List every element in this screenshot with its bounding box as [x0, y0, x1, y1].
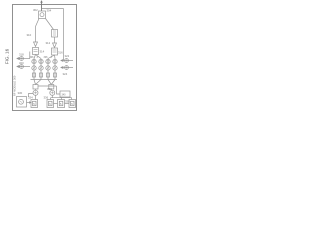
right LO circle row1: [65, 59, 69, 63]
svg-text:322: 322: [65, 54, 70, 58]
svg-text:320: 320: [19, 61, 24, 65]
right LO line row2: [61, 67, 73, 69]
svg-text:314: 314: [40, 50, 45, 54]
DAC box B: [47, 100, 54, 108]
wire diagonal left branch: [36, 19, 40, 27]
left LO circle row2: [20, 65, 24, 69]
switch box 1: [33, 85, 38, 90]
svg-text:332: 332: [47, 87, 52, 91]
amplifier triangle left: [34, 42, 38, 47]
wire split left pair: [34, 55, 41, 59]
svg-text:316: 316: [58, 51, 63, 55]
wire circle1 to box A: [35, 89, 37, 100]
wire V merge 1: [34, 80, 41, 85]
wire top horizontal to LO drop: [42, 8, 64, 10]
box 304 right branch: [52, 30, 58, 38]
wire antenna feed vertical: [41, 1, 43, 11]
circle inside antenna box: [40, 13, 44, 17]
ADC box D: [69, 100, 76, 108]
amp box bottom chain2: [40, 73, 43, 77]
oscillator box: [17, 97, 27, 108]
left LO arrow row2: [17, 66, 19, 68]
svg-text:FIG. 16: FIG. 16: [4, 48, 9, 64]
phase shifter circle row2 chain1: [32, 66, 36, 70]
phase shifter circle row2 chain3: [46, 66, 50, 70]
svg-text:318: 318: [19, 53, 24, 57]
mixer circle row1 chain3: [46, 59, 50, 63]
subchain 1 wire: [33, 59, 35, 80]
left LO circle row1: [20, 57, 24, 61]
switch box 2: [49, 85, 54, 90]
wire V merge 2: [48, 80, 55, 85]
mixer circle row1 chain4: [53, 59, 57, 63]
svg-text:302: 302: [33, 8, 38, 12]
wire right chain vertical: [54, 37, 56, 43]
svg-text:310: 310: [27, 33, 32, 37]
subchain 3 wire: [47, 59, 49, 80]
left LO line row1: [17, 58, 30, 60]
right LO circle row2: [65, 66, 69, 70]
wire circle2 junction: [51, 89, 53, 100]
amp box bottom chain4: [54, 73, 57, 77]
right LO arrow row2: [61, 67, 63, 69]
border frame: [13, 5, 77, 111]
left LO line row2: [17, 66, 30, 68]
amplifier triangle right: [53, 43, 57, 48]
svg-text:334: 334: [28, 96, 33, 100]
right LO arrow row1: [61, 60, 63, 62]
wire diagonal right branch: [46, 19, 54, 30]
oscillator circle: [19, 99, 24, 104]
svg-text:306: 306: [30, 56, 35, 59]
wire split right pair: [48, 55, 55, 59]
ADC box C: [58, 100, 65, 108]
wire osc to box A: [27, 102, 32, 104]
right LO line row1: [61, 60, 73, 62]
svg-text:324: 324: [63, 72, 68, 76]
svg-text:338: 338: [65, 100, 70, 104]
phase shifter circle row2 chain2: [39, 66, 43, 70]
wire LO vertical drop: [63, 9, 65, 61]
mixer circle row1 chain1: [32, 59, 36, 63]
wire C to D: [65, 103, 70, 105]
svg-text:336: 336: [44, 96, 49, 100]
mixer circle row1 chain2: [39, 59, 43, 63]
subchain 2 wire: [40, 59, 42, 80]
svg-text:340: 340: [62, 94, 67, 97]
svg-text:306: 306: [44, 56, 49, 59]
left LO arrow row1: [17, 58, 19, 60]
wire B to C: [54, 103, 58, 105]
wire box E to box C: [61, 97, 63, 100]
phase shifter circle row2 chain4: [53, 66, 57, 70]
mixer glyphs: [33, 60, 36, 63]
combiner circle 1: [33, 90, 38, 95]
svg-text:330: 330: [18, 91, 23, 95]
wire circle2 to box D: [51, 98, 72, 100]
wire osc to combiner L: [29, 94, 34, 98]
combiner circle 2: [50, 90, 55, 95]
antenna box 302: [39, 11, 46, 19]
wire left chain vertical: [35, 27, 37, 43]
amp box bottom chain1: [33, 73, 36, 77]
wire horizontal mid to jog: [38, 85, 57, 87]
DAC box A: [31, 100, 38, 108]
bus wire: [31, 79, 58, 81]
svg-text:RF MODULE 300: RF MODULE 300: [13, 75, 17, 96]
amp box bottom chain3: [47, 73, 50, 77]
filter box left: [33, 48, 39, 55]
svg-text:312: 312: [46, 41, 51, 45]
svg-text:304: 304: [47, 9, 52, 13]
control box E: [60, 91, 70, 97]
subchain 4 wire: [54, 59, 56, 80]
wire LO riser left: [29, 52, 31, 59]
filter box right: [52, 48, 58, 55]
wire jog down to box E: [57, 86, 61, 94]
